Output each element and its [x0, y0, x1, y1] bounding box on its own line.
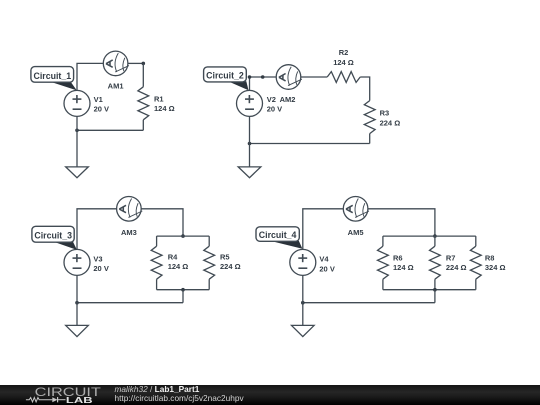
svg-text:R4: R4 — [168, 253, 178, 262]
wire V2 top up — [249, 77, 251, 90]
svg-text:R3: R3 — [380, 109, 390, 118]
wire R6 bottom lead — [382, 279, 384, 290]
svg-text:AM3: AM3 — [121, 228, 137, 237]
wire parallel bottom to bottom wire — [182, 290, 184, 303]
name tag Circuit_3 — [32, 226, 77, 250]
wire bottom rail C2 — [250, 143, 370, 145]
voltage source V1 — [64, 90, 90, 116]
ammeter AM3 — [117, 197, 143, 222]
svg-text:20 V: 20 V — [93, 264, 108, 273]
wire R1 bottom to bottom rail — [142, 120, 144, 131]
ground C3 — [66, 325, 89, 336]
resistor R1 — [138, 87, 149, 120]
wire AM1 right to node — [128, 62, 143, 64]
wire R7 top lead — [434, 236, 436, 246]
wire R5 bottom lead — [208, 279, 210, 290]
ammeter AM2 — [276, 65, 302, 90]
svg-text:324 Ω: 324 Ω — [485, 263, 506, 272]
node: junction dot V3 bottom — [75, 301, 79, 305]
node: junction dot above V2 — [248, 75, 252, 79]
wire V1 bottom to ground — [76, 116, 78, 166]
ground C4 — [292, 325, 315, 336]
wire V3 top to ammeter AM3 — [77, 209, 117, 250]
svg-text:Circuit_4: Circuit_4 — [259, 230, 297, 240]
node: junction dot top rail C3 — [181, 234, 185, 238]
svg-text:R8: R8 — [485, 254, 495, 263]
svg-text:Circuit_1: Circuit_1 — [33, 71, 71, 81]
footer credit line — [115, 385, 244, 403]
ground C1 — [66, 167, 89, 178]
node: junction dot V2 bottom — [248, 142, 252, 146]
wire R5 top lead — [208, 236, 210, 246]
resistor R7 — [430, 246, 441, 279]
wire V3 bottom to ground — [76, 275, 78, 325]
svg-text:R5: R5 — [220, 253, 230, 262]
wire AM3 right to parallel top node — [141, 209, 183, 236]
svg-text:224 Ω: 224 Ω — [220, 262, 241, 271]
voltage source V4 — [290, 249, 316, 275]
svg-text:224 Ω: 224 Ω — [446, 263, 467, 272]
logo diode — [52, 397, 57, 402]
ammeter AM1 — [103, 51, 129, 76]
ammeter AM5 — [343, 197, 369, 222]
svg-text:20 V: 20 V — [94, 105, 109, 114]
wire R4 bottom lead — [156, 279, 158, 290]
svg-text:V4: V4 — [319, 255, 329, 264]
resistor R4 — [151, 246, 162, 279]
svg-text:124 Ω: 124 Ω — [333, 58, 354, 67]
svg-text:124 Ω: 124 Ω — [393, 263, 414, 272]
svg-text:R7: R7 — [446, 254, 456, 263]
svg-text:V3: V3 — [93, 254, 102, 263]
node: junction dot top-right C1 — [142, 62, 146, 66]
svg-text:20 V: 20 V — [267, 105, 282, 114]
footer bar — [0, 385, 540, 405]
node: junction dot bottom rail C3 — [181, 288, 185, 292]
node: junction dot top rail C4 — [433, 234, 437, 238]
resistor R8 — [470, 246, 481, 279]
name tag Circuit_1 — [31, 67, 77, 91]
wire R4 top lead — [156, 236, 158, 246]
svg-text:V2: V2 — [267, 95, 276, 104]
wire bottom rail C3 — [157, 289, 210, 291]
wire top rail to ammeter AM2 — [250, 76, 276, 78]
wire bottom C3 — [77, 302, 183, 304]
svg-text:V1: V1 — [94, 95, 103, 104]
node: junction dot bottom rail C4 — [433, 288, 437, 292]
logo resistor squiggle — [26, 397, 52, 401]
wire V1 top to ammeter AM1 left — [77, 63, 103, 90]
svg-text:224 Ω: 224 Ω — [380, 118, 401, 127]
wire R7 bottom lead — [434, 279, 436, 290]
svg-text:Circuit_3: Circuit_3 — [34, 230, 72, 240]
wire AM2 right to R2 — [301, 76, 327, 78]
svg-text:R2: R2 — [339, 48, 349, 57]
node: junction dot V1 bottom — [75, 129, 79, 133]
resistor R6 — [378, 246, 389, 279]
svg-text:124 Ω: 124 Ω — [168, 262, 189, 271]
wire R2 right to corner down to R3 — [360, 77, 370, 101]
svg-text:R6: R6 — [393, 254, 403, 263]
wire top rail C4 — [383, 235, 476, 237]
svg-text:AM1: AM1 — [108, 82, 124, 91]
svg-text:Circuit_2: Circuit_2 — [206, 70, 244, 80]
svg-text:124 Ω: 124 Ω — [154, 104, 175, 113]
node: junction dot V4 bottom — [301, 301, 305, 305]
wire node down to R1 — [142, 63, 144, 86]
wire R8 bottom lead — [475, 279, 477, 290]
name tag Circuit_2 — [204, 67, 249, 90]
ground C2 — [238, 167, 261, 178]
wire R8 top lead — [475, 236, 477, 246]
wire R6 top lead — [382, 236, 384, 246]
name tag Circuit_4 — [256, 227, 302, 249]
voltage source V3 — [64, 249, 90, 275]
CircuitLab logo wordmark CIRCUIT — [0, 385, 120, 405]
svg-text:AM2: AM2 — [280, 95, 296, 104]
svg-text:LAB: LAB — [66, 394, 93, 404]
svg-text:AM5: AM5 — [348, 228, 364, 237]
resistor R3 — [364, 101, 375, 134]
resistor R5 — [204, 246, 215, 279]
wire bottom C4 — [303, 302, 435, 304]
wire top rail C3 — [157, 235, 210, 237]
wire AM5 right to parallel top node — [368, 209, 435, 236]
wire V4 bottom to ground — [302, 275, 304, 325]
voltage source V2 — [237, 90, 263, 116]
wire parallel bottom to bottom wire C4 — [434, 290, 436, 303]
resistor R2 — [327, 72, 360, 83]
wire bottom rail C1 — [77, 129, 143, 131]
wire bottom rail C4 — [383, 289, 476, 291]
wire V2 bottom to ground — [249, 116, 251, 166]
svg-text:20 V: 20 V — [319, 264, 334, 273]
wire V4 top to ammeter AM5 — [303, 209, 344, 250]
node: junction dot mid wire — [261, 75, 265, 79]
wire R3 bottom to bottom rail — [369, 134, 371, 144]
svg-text:R1: R1 — [154, 94, 164, 103]
